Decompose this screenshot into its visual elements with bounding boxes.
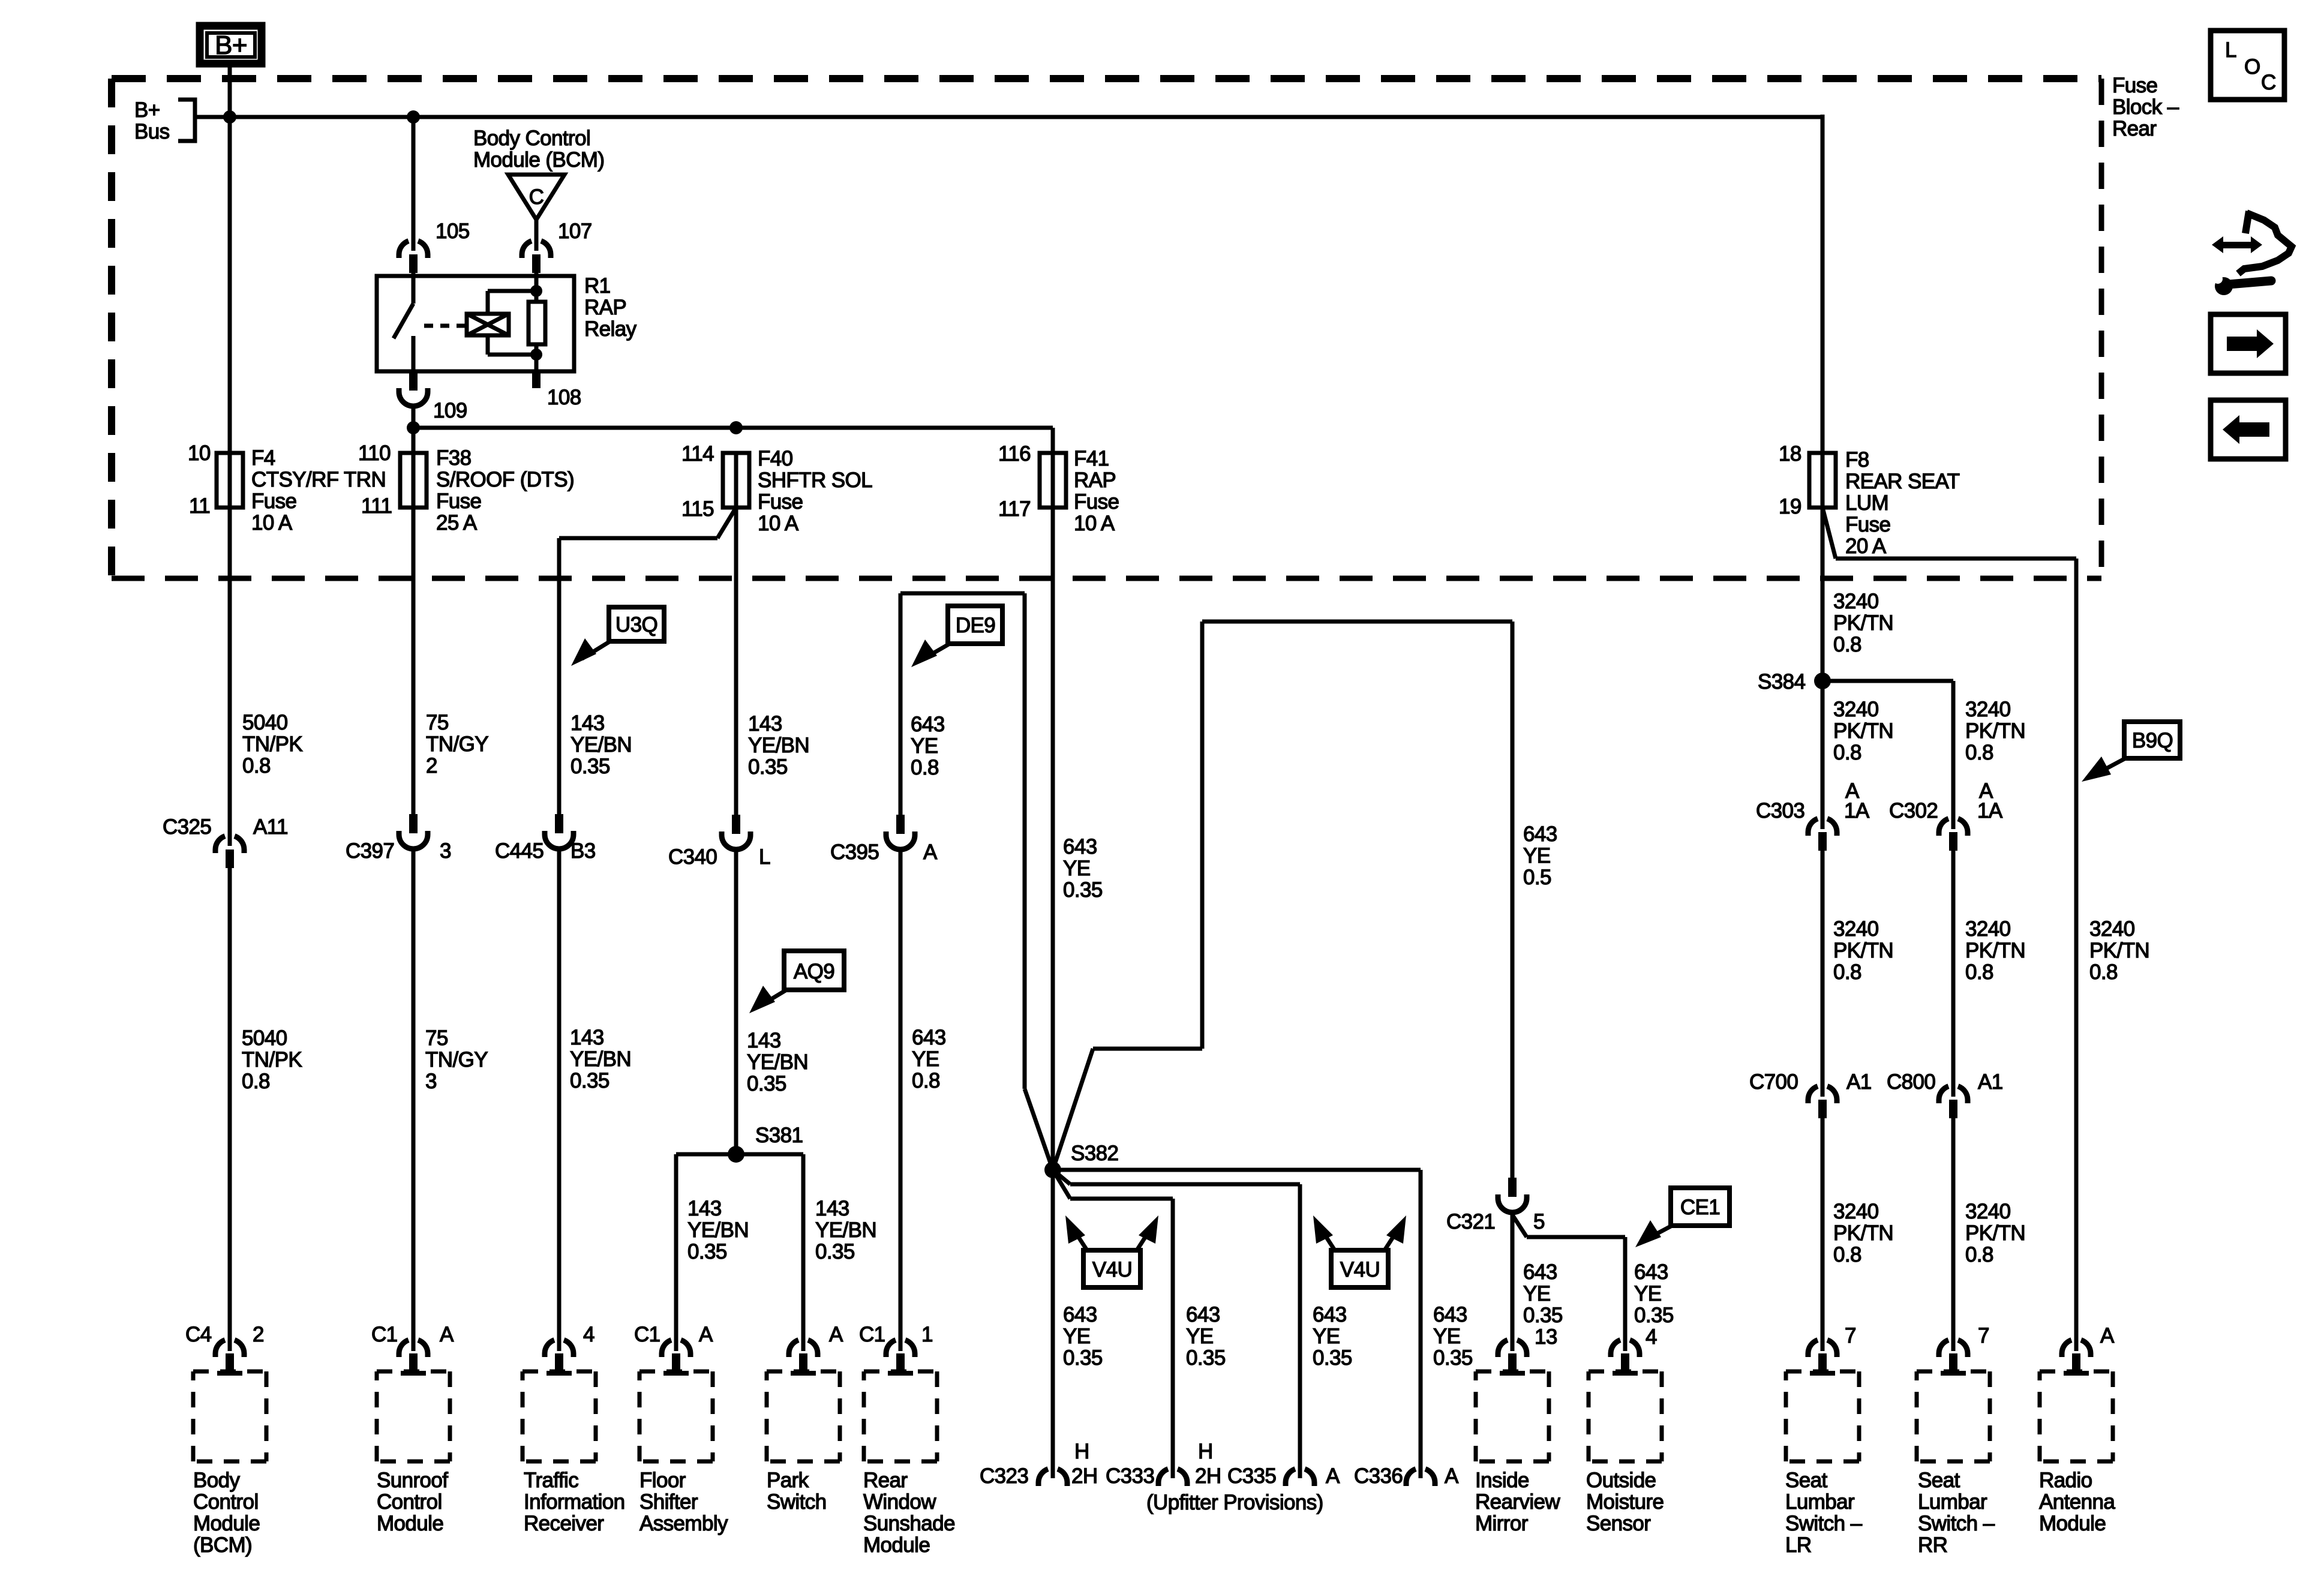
connector C335 [1286, 1469, 1314, 1486]
module label Traffic [524, 1469, 625, 1535]
svg-text:S384: S384 [1758, 670, 1805, 694]
svg-text:PK/TN: PK/TN [1833, 611, 1893, 635]
svg-text:YE/BN: YE/BN [687, 1218, 749, 1242]
svg-text:C340: C340 [668, 845, 717, 869]
svg-text:Seat: Seat [1918, 1469, 1960, 1492]
wire S381 to floor shifter [674, 1154, 678, 1351]
svg-text:3240: 3240 [1965, 1200, 2011, 1223]
wire label 3240 PK/TN 0.8 (C800 to switch) [1965, 1200, 2025, 1266]
label Fuse Block - Rear [2112, 74, 2179, 140]
svg-text:0.8: 0.8 [1833, 741, 1861, 764]
relay coil branch [467, 273, 536, 355]
svg-text:0.35: 0.35 [1063, 1346, 1103, 1370]
module box Radio Antenna Module [2040, 1371, 2113, 1461]
svg-text:1: 1 [921, 1323, 933, 1346]
wire B+ feed drop to fuse F4 [228, 64, 232, 454]
svg-text:643: 643 [1634, 1260, 1668, 1284]
svg-text:643: 643 [911, 713, 945, 736]
svg-text:TN/PK: TN/PK [242, 1048, 302, 1071]
connector C340 [722, 815, 750, 849]
svg-text:A: A [923, 840, 938, 864]
wire C340 to S381 [734, 849, 738, 1154]
wire bus drop to RAP relay pin 105 [412, 117, 416, 251]
relay R1 RAP Relay box [377, 274, 637, 371]
svg-text:Switch –: Switch – [1785, 1512, 1863, 1535]
svg-text:Shifter: Shifter [639, 1490, 698, 1514]
wire 109 to junction [412, 406, 416, 454]
svg-text:REAR SEAT: REAR SEAT [1845, 470, 1960, 493]
callout AQ9 [749, 951, 844, 1013]
wire label 3240 PK/TN 0.8 (above S384) [1833, 590, 1893, 656]
svg-text:C336: C336 [1354, 1464, 1403, 1488]
callout U3Q [571, 607, 664, 666]
BCM output triangle C [508, 175, 565, 220]
svg-text:R1: R1 [584, 274, 611, 298]
wire S381 to park switch [801, 1154, 806, 1351]
svg-text:1A: 1A [1844, 799, 1870, 822]
connector C397 [399, 814, 428, 849]
svg-text:C700: C700 [1749, 1070, 1798, 1094]
svg-text:Mirror: Mirror [1475, 1512, 1529, 1535]
module label Outside Moisture Sensor [1586, 1469, 1664, 1535]
svg-text:0.8: 0.8 [2089, 960, 2118, 984]
module box Rear Window Sunshade Module [864, 1371, 937, 1461]
wire label 643 YE 0.35 (C335) [1313, 1303, 1352, 1370]
connector C323 [1038, 1469, 1067, 1486]
svg-text:YE: YE [912, 1047, 939, 1071]
legend LOC box [2211, 31, 2284, 100]
svg-text:2: 2 [426, 754, 437, 778]
svg-text:YE: YE [1523, 844, 1551, 867]
module label Sunroof [377, 1469, 448, 1535]
svg-text:105: 105 [436, 220, 470, 243]
svg-text:A: A [829, 1323, 843, 1346]
svg-text:YE/BN: YE/BN [571, 733, 632, 757]
svg-text:25 A: 25 A [436, 511, 478, 535]
wire F41 to S382 [1051, 508, 1055, 1170]
svg-text:0.8: 0.8 [1833, 633, 1861, 656]
svg-text:108: 108 [547, 386, 581, 409]
wire F40 to C340 [734, 508, 738, 815]
svg-text:PK/TN: PK/TN [1833, 1221, 1893, 1245]
svg-text:3240: 3240 [1833, 917, 1879, 941]
wire label 75 TN/GY 3 [425, 1026, 488, 1093]
svg-text:Module: Module [2039, 1512, 2106, 1535]
module label BCM [193, 1469, 260, 1557]
connector C302 [1939, 819, 1968, 851]
wire C321 to inside rearview mirror [1511, 1212, 1515, 1351]
svg-text:143: 143 [571, 712, 605, 735]
svg-text:Inside: Inside [1475, 1469, 1529, 1492]
fuse F40 labels [758, 447, 872, 535]
svg-text:TN/GY: TN/GY [426, 733, 488, 756]
svg-text:U3Q: U3Q [615, 613, 657, 637]
svg-text:Rear: Rear [863, 1469, 908, 1492]
svg-text:19: 19 [1779, 495, 1801, 518]
svg-text:0.35: 0.35 [571, 755, 610, 778]
svg-text:C323: C323 [980, 1464, 1028, 1488]
module label Seat Lumbar Switch LR [1785, 1469, 1863, 1557]
module box Outside Moisture Sensor [1589, 1371, 1662, 1461]
svg-text:643: 643 [1523, 822, 1557, 846]
svg-text:YE: YE [1634, 1282, 1662, 1305]
wire label 3240 PK/TN 0.8 (S384 to C302) [1965, 698, 2025, 764]
junction 109 feed / F38 [407, 421, 420, 434]
svg-text:0.8: 0.8 [242, 754, 271, 778]
svg-text:YE/BN: YE/BN [570, 1047, 631, 1071]
svg-text:75: 75 [426, 711, 449, 734]
wire label 3240 PK/TN 0.8 (antenna column) [2089, 917, 2149, 984]
module label Seat Lumbar Switch RR [1918, 1469, 1995, 1557]
svg-text:Control: Control [377, 1490, 442, 1514]
svg-text:PK/TN: PK/TN [1965, 939, 2025, 962]
connector pin 7 (seat lumbar LR) [1808, 1340, 1837, 1376]
svg-text:(Upfitter Provisions): (Upfitter Provisions) [1146, 1491, 1323, 1514]
svg-text:0.8: 0.8 [1965, 1243, 1993, 1266]
svg-text:F4: F4 [251, 446, 275, 470]
wire C800 to seat lumbar switch RR [1951, 1118, 1956, 1351]
fuse F40 [723, 453, 749, 508]
svg-text:Floor: Floor [639, 1469, 686, 1492]
svg-text:Park: Park [767, 1469, 809, 1492]
svg-text:2H: 2H [1071, 1464, 1098, 1488]
svg-text:114: 114 [681, 442, 714, 466]
wire label 3240 PK/TN 0.8 (C302 to C800) [1965, 917, 2025, 984]
module box Body Control Module [193, 1371, 266, 1461]
wire through fuse F41 [1051, 454, 1055, 508]
svg-text:Fuse: Fuse [1845, 513, 1890, 536]
connector C1 pin 1 (sunshade) [886, 1340, 915, 1376]
svg-text:Block –: Block – [2112, 95, 2179, 119]
svg-text:A: A [440, 1323, 454, 1346]
wire label 643 YE 0.35 (C333) [1186, 1303, 1226, 1370]
svg-text:4: 4 [583, 1323, 594, 1346]
svg-text:Moisture: Moisture [1586, 1490, 1664, 1514]
svg-text:10: 10 [188, 442, 211, 465]
svg-text:143: 143 [748, 712, 782, 736]
wire through fuse F40 [734, 454, 738, 508]
power symbol B+ (double box) [200, 26, 262, 64]
svg-text:5: 5 [1533, 1210, 1545, 1233]
module label Radio Antenna Module [2039, 1469, 2115, 1535]
svg-text:H: H [1198, 1440, 1213, 1463]
svg-text:(BCM): (BCM) [193, 1533, 252, 1557]
svg-text:C325: C325 [163, 815, 211, 839]
wire label 3240 PK/TN 0.8 (C303 to C700) [1833, 917, 1893, 984]
module box Traffic Information Receiver [523, 1371, 596, 1461]
connector C333 [1158, 1469, 1187, 1486]
wire S382 to C333 [1053, 1170, 1173, 1478]
svg-text:A: A [1445, 1464, 1459, 1488]
wire label 5040 TN/PK 0.8 (lower) [242, 1026, 302, 1093]
svg-text:0.35: 0.35 [747, 1072, 786, 1095]
svg-text:C445: C445 [495, 839, 544, 863]
module label Sunshade [863, 1469, 955, 1557]
svg-text:YE/BN: YE/BN [815, 1218, 876, 1242]
wire F8 to S384 [1821, 508, 1825, 829]
splice S384 [1758, 670, 1831, 694]
svg-text:YE: YE [1523, 1282, 1551, 1305]
wire C321 branch to outside moisture sensor [1512, 1215, 1625, 1351]
wire F40 output jog to traffic receiver column [559, 508, 736, 814]
wire label 643 YE 0.35 (C336) [1433, 1303, 1473, 1370]
svg-text:C395: C395 [830, 840, 879, 864]
svg-text:C321: C321 [1446, 1210, 1495, 1233]
svg-text:Module: Module [193, 1512, 260, 1535]
svg-text:B3: B3 [571, 839, 596, 863]
svg-text:3: 3 [425, 1070, 437, 1093]
svg-text:Fuse: Fuse [436, 490, 481, 513]
svg-text:Sunshade: Sunshade [863, 1512, 955, 1535]
svg-text:3240: 3240 [1833, 698, 1879, 721]
svg-text:V4U: V4U [1340, 1258, 1380, 1281]
svg-text:0.35: 0.35 [1433, 1346, 1473, 1370]
svg-text:TN/GY: TN/GY [425, 1048, 488, 1071]
svg-text:B+: B+ [215, 31, 247, 60]
relay switch contact [394, 273, 413, 371]
wire label 143 YE/BN 0.35 (shifter upper) [748, 712, 809, 779]
svg-text:115: 115 [681, 497, 714, 521]
fuse F38 [400, 453, 427, 508]
connector C325 [215, 836, 244, 868]
svg-text:C335: C335 [1227, 1464, 1276, 1488]
svg-text:116: 116 [998, 442, 1031, 466]
wire S382 to C323 [1051, 1170, 1055, 1478]
svg-text:RR: RR [1918, 1533, 1947, 1557]
svg-text:Rearview: Rearview [1475, 1490, 1560, 1514]
svg-text:Lumbar: Lumbar [1918, 1490, 1987, 1514]
svg-text:S/ROOF (DTS): S/ROOF (DTS) [436, 468, 574, 491]
svg-text:TN/PK: TN/PK [242, 733, 302, 756]
wire label 643 YE 0.5 [1523, 822, 1557, 889]
svg-text:C333: C333 [1106, 1464, 1154, 1488]
connector pin 13 (inside mirror) [1498, 1340, 1527, 1376]
svg-text:0.35: 0.35 [687, 1240, 727, 1263]
svg-text:C397: C397 [346, 839, 394, 863]
connector pin 4 (traffic receiver) [545, 1340, 574, 1376]
svg-text:3240: 3240 [2089, 917, 2135, 941]
svg-text:Bus: Bus [134, 120, 170, 143]
svg-text:10 A: 10 A [1074, 512, 1115, 535]
fuse F8 labels [1845, 448, 1960, 558]
connector pin A (radio antenna) [2062, 1340, 2091, 1376]
svg-text:C: C [2261, 71, 2276, 94]
junction 109 feed / F40 [729, 421, 743, 434]
svg-text:YE: YE [1313, 1325, 1340, 1348]
svg-text:143: 143 [815, 1197, 849, 1220]
svg-text:RAP: RAP [1074, 469, 1116, 492]
svg-text:A1: A1 [1846, 1070, 1872, 1094]
wire label 143 YE/BN 0.35 (below AQ9) [747, 1029, 808, 1095]
svg-text:643: 643 [1063, 1303, 1097, 1326]
svg-text:0.8: 0.8 [1965, 741, 1993, 764]
wire C302 to C800 [1951, 851, 1956, 1097]
svg-text:7: 7 [1845, 1324, 1856, 1347]
fuse F8 [1809, 453, 1836, 508]
svg-text:Body Control: Body Control [473, 127, 590, 150]
wire bus corner down to fuse F8 [1821, 115, 1825, 454]
svg-text:Sunroof: Sunroof [377, 1469, 448, 1492]
svg-text:PK/TN: PK/TN [2089, 939, 2149, 962]
svg-text:C1: C1 [859, 1323, 885, 1346]
svg-text:10 A: 10 A [758, 512, 799, 535]
svg-text:F38: F38 [436, 446, 472, 470]
svg-text:0.8: 0.8 [1833, 1243, 1861, 1266]
wire C303 to C700 [1821, 851, 1825, 1097]
wire label 143 YE/BN 0.35 (S381 right) [815, 1197, 876, 1263]
svg-text:F8: F8 [1845, 448, 1869, 472]
fuse F41 labels [1074, 447, 1119, 535]
svg-text:Outside: Outside [1586, 1469, 1656, 1492]
svg-text:YE/BN: YE/BN [747, 1050, 808, 1074]
pin 105 connector into relay [399, 241, 428, 273]
svg-text:S382: S382 [1071, 1142, 1118, 1165]
connector C1 pin A (sunroof) [399, 1340, 428, 1376]
wire label 643 YE 0.35 (mirror) [1523, 1260, 1563, 1327]
svg-text:0.35: 0.35 [1186, 1346, 1226, 1370]
junction bus / relay drop [407, 110, 420, 124]
module label Floor Shifter [639, 1469, 728, 1535]
svg-text:643: 643 [912, 1026, 946, 1049]
svg-text:Control: Control [193, 1490, 259, 1514]
svg-text:143: 143 [570, 1026, 604, 1049]
wire F8 jog to radio antenna column [1822, 508, 2076, 1351]
wire label 643 YE 0.35 (F41 column) [1063, 835, 1103, 902]
pin 109 connector below relay [399, 371, 428, 406]
module box Seat Lumbar Switch LR [1786, 1371, 1859, 1461]
svg-text:C4: C4 [185, 1323, 212, 1346]
svg-text:0.35: 0.35 [1523, 1304, 1563, 1327]
connector C336 [1406, 1469, 1435, 1486]
svg-text:3240: 3240 [1833, 590, 1879, 613]
callout B9Q [2082, 722, 2180, 782]
splice S382 [1044, 1142, 1118, 1178]
svg-text:C302: C302 [1889, 799, 1938, 822]
svg-text:B9Q: B9Q [2132, 729, 2173, 752]
svg-text:2H: 2H [1195, 1464, 1221, 1488]
wire C302 column drop [1951, 681, 1956, 829]
wire C325 to BCM [228, 868, 232, 1351]
svg-text:0.35: 0.35 [815, 1240, 855, 1263]
svg-text:Fuse: Fuse [2112, 74, 2157, 97]
junction relay coil top [530, 285, 542, 297]
svg-text:YE: YE [911, 734, 938, 758]
wire S382 to C336 [1053, 1170, 1421, 1478]
svg-text:5040: 5040 [242, 1026, 287, 1050]
connector C395 [886, 815, 915, 849]
svg-text:Radio: Radio [2039, 1469, 2092, 1492]
svg-text:643: 643 [1523, 1260, 1557, 1284]
svg-text:Relay: Relay [584, 317, 637, 341]
wire F4 to C325 [228, 508, 232, 846]
wire label 643 YE 0.35 (C323) [1063, 1303, 1103, 1370]
svg-text:F40: F40 [758, 447, 793, 470]
svg-text:C1: C1 [634, 1323, 660, 1346]
wire 0.5 loop [1053, 622, 1512, 1178]
wire drop to F41 [1051, 428, 1055, 454]
svg-text:75: 75 [425, 1026, 448, 1050]
svg-text:AQ9: AQ9 [794, 960, 834, 983]
svg-text:A1: A1 [1978, 1070, 2003, 1094]
callout V4U (right pair) [1313, 1215, 1406, 1287]
svg-text:143: 143 [687, 1197, 722, 1220]
svg-text:0.8: 0.8 [912, 1069, 940, 1092]
svg-text:0.8: 0.8 [1965, 960, 1993, 984]
svg-text:111: 111 [361, 494, 392, 518]
svg-text:V4U: V4U [1092, 1258, 1132, 1281]
module box Sunroof Control Module [377, 1371, 450, 1461]
junction B+ bus / F4 drop [223, 110, 236, 124]
svg-text:S381: S381 [755, 1124, 803, 1147]
svg-text:A: A [1326, 1464, 1340, 1488]
svg-text:A: A [2100, 1324, 2115, 1347]
svg-text:RAP: RAP [584, 296, 626, 319]
pin 108 stub [532, 371, 541, 388]
svg-text:117: 117 [998, 497, 1031, 521]
svg-text:107: 107 [558, 220, 592, 243]
svg-text:L: L [2225, 38, 2236, 62]
svg-text:Lumbar: Lumbar [1785, 1490, 1855, 1514]
fuse block dashed border (Fuse Block - Rear) [112, 79, 2101, 578]
svg-text:YE: YE [1433, 1325, 1461, 1348]
svg-text:DE9: DE9 [956, 614, 995, 637]
svg-text:YE: YE [1186, 1325, 1214, 1348]
svg-text:3240: 3240 [1833, 1200, 1879, 1223]
legend forward arrow box [2211, 314, 2286, 373]
connector pin 7 (seat lumbar RR) [1939, 1340, 1968, 1376]
svg-text:0.8: 0.8 [242, 1070, 270, 1093]
connector C445 [545, 814, 574, 849]
svg-text:YE: YE [1063, 1325, 1091, 1348]
svg-text:CE1: CE1 [1680, 1196, 1720, 1219]
wire C445 to traffic receiver [557, 849, 562, 1351]
svg-text:Sensor: Sensor [1586, 1512, 1651, 1535]
wire label 643 YE 0.8 (sunshade lower) [912, 1026, 946, 1092]
svg-text:B+: B+ [134, 98, 160, 122]
svg-text:4: 4 [1646, 1325, 1657, 1349]
wire S384 to C302 column [1822, 679, 1953, 683]
svg-text:Rear: Rear [2112, 117, 2157, 140]
wire through fuse F4 [228, 454, 232, 508]
svg-text:13: 13 [1535, 1325, 1557, 1349]
svg-text:0.35: 0.35 [570, 1069, 609, 1092]
wire through fuse F8 [1821, 454, 1825, 508]
connector C303 [1808, 819, 1837, 851]
svg-text:643: 643 [1063, 835, 1097, 858]
svg-text:11: 11 [189, 494, 210, 518]
svg-text:Fuse: Fuse [1074, 490, 1119, 514]
svg-text:Window: Window [863, 1490, 936, 1514]
wire C395 to sunshade module [899, 849, 903, 1351]
svg-text:Traffic: Traffic [524, 1469, 578, 1492]
svg-text:3240: 3240 [1965, 917, 2011, 941]
wire label 5040 TN/PK 0.8 (upper) [242, 711, 302, 778]
svg-text:0.35: 0.35 [1634, 1304, 1674, 1327]
svg-text:7: 7 [1978, 1324, 1989, 1347]
module box Inside Rearview Mirror [1476, 1371, 1549, 1461]
svg-text:643: 643 [1313, 1303, 1347, 1326]
node B+ Bus label and bracket [134, 98, 195, 143]
svg-text:PK/TN: PK/TN [1833, 939, 1893, 962]
wire F38 to C397 [412, 508, 416, 814]
wire sunshade loop [900, 593, 1053, 1170]
svg-text:Module: Module [863, 1533, 930, 1557]
svg-text:1A: 1A [1977, 799, 2003, 822]
wire C700 to seat lumbar switch LR [1821, 1118, 1825, 1351]
fuse F41 [1040, 453, 1066, 508]
svg-text:Fuse: Fuse [251, 490, 296, 513]
svg-text:A: A [699, 1323, 713, 1346]
